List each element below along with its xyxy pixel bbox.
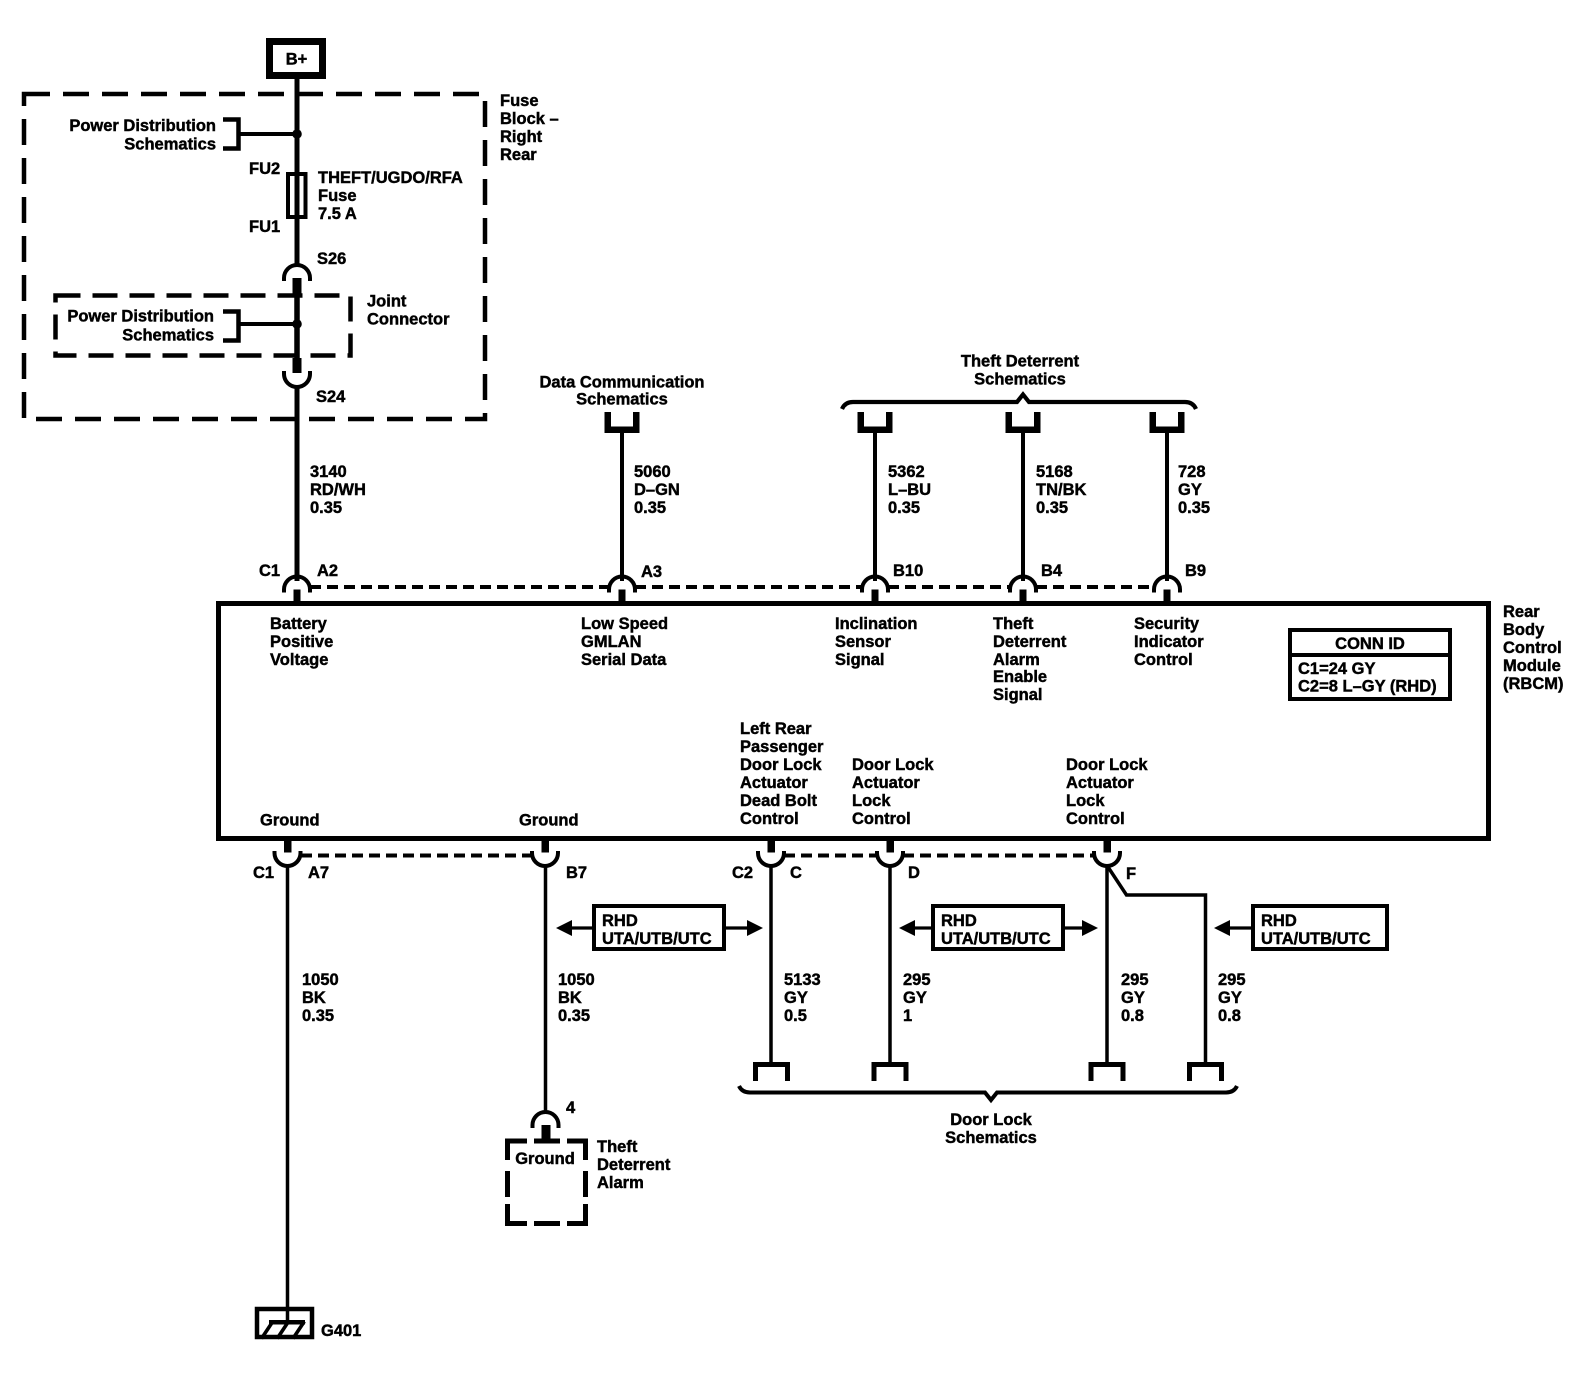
svg-text:Dead Bolt: Dead Bolt bbox=[740, 792, 818, 810]
pin A3 terminal stub bbox=[619, 590, 626, 603]
svg-text:B+: B+ bbox=[286, 51, 308, 69]
svg-text:G401: G401 bbox=[321, 1322, 361, 1340]
label: Joint Connector bbox=[367, 293, 450, 329]
label: 728 GY 0.35 bbox=[1178, 463, 1210, 517]
dashed box: Theft Deterrent Alarm ground bbox=[508, 1141, 586, 1224]
pin B10 terminal stub bbox=[872, 590, 879, 603]
wire 1050 BK: pin B7 down to theft deterrent alarm bbox=[544, 864, 548, 1113]
svg-text:F: F bbox=[1126, 865, 1136, 883]
label: 5168 TN/BK 0.35 bbox=[1036, 463, 1086, 517]
pin 4 terminal stub bbox=[542, 1125, 551, 1139]
label: THEFT/UGDO/RFA Fuse 7.5 A bbox=[318, 169, 463, 223]
svg-text:5168: 5168 bbox=[1036, 463, 1073, 481]
svg-text:Power Distribution: Power Distribution bbox=[67, 308, 214, 326]
pin B9 connector arc bbox=[1154, 577, 1180, 593]
pin B4 connector arc bbox=[1010, 577, 1036, 593]
label: Power Distribution Schematics (upper) bbox=[69, 117, 216, 154]
label: Data Communication Schematics bbox=[539, 374, 704, 409]
svg-text:S24: S24 bbox=[316, 388, 346, 406]
svg-text:Actuator: Actuator bbox=[1066, 774, 1134, 792]
svg-text:Control: Control bbox=[1066, 810, 1125, 828]
pin F connector arc bbox=[1094, 851, 1120, 866]
svg-text:Fuse: Fuse bbox=[500, 92, 539, 110]
label: Theft Deterrent Alarm bbox=[597, 1138, 671, 1192]
pin A3 connector arc bbox=[609, 577, 635, 593]
label: 3140 RD/WH 0.35 bbox=[310, 463, 366, 517]
svg-text:GY: GY bbox=[1121, 989, 1145, 1007]
svg-text:Data Communication: Data Communication bbox=[539, 374, 704, 392]
label: Theft Deterrent Schematics bbox=[961, 353, 1080, 389]
svg-text:Serial Data: Serial Data bbox=[581, 651, 667, 669]
svg-text:5060: 5060 bbox=[634, 463, 671, 481]
svg-text:295: 295 bbox=[903, 971, 931, 989]
svg-text:Battery: Battery bbox=[270, 615, 328, 633]
svg-text:Schematics: Schematics bbox=[576, 391, 668, 409]
svg-text:0.8: 0.8 bbox=[1218, 1007, 1241, 1025]
dashed connector line: RBCM top edge C1 bbox=[310, 585, 1154, 589]
svg-text:Theft: Theft bbox=[993, 615, 1034, 633]
svg-text:3140: 3140 bbox=[310, 463, 347, 481]
svg-text:1050: 1050 bbox=[558, 971, 595, 989]
svg-text:295: 295 bbox=[1218, 971, 1246, 989]
svg-text:Right: Right bbox=[500, 128, 543, 146]
wire: bracket to main feed (lower) bbox=[240, 322, 297, 326]
label: 5060 D-GN 0.35 bbox=[634, 463, 680, 517]
svg-text:Schematics: Schematics bbox=[945, 1129, 1037, 1147]
label: 1050 BK 0.35 (left) bbox=[302, 971, 339, 1025]
svg-text:FU1: FU1 bbox=[249, 218, 280, 236]
svg-text:1050: 1050 bbox=[302, 971, 339, 989]
wire 728 GY: to RBCM pin B9 bbox=[1165, 433, 1169, 581]
svg-text:B4: B4 bbox=[1041, 562, 1063, 580]
conn id table bbox=[1288, 630, 1452, 699]
off-page connector: theft deterrent (right) bbox=[1150, 412, 1185, 433]
wire: bracket to main feed (upper) bbox=[240, 132, 297, 136]
pin B7 connector arc bbox=[532, 851, 558, 866]
wire: through joint connector bbox=[294, 295, 300, 358]
off-page connector: door lock (branch) bbox=[1187, 1062, 1224, 1081]
pin A7 connector arc (C1) bbox=[275, 851, 301, 866]
svg-text:UTA/UTB/UTC: UTA/UTB/UTC bbox=[602, 930, 712, 948]
label: Theft Deterrent Alarm Enable Signal bbox=[993, 615, 1067, 704]
off-page connector: door lock (F) bbox=[1089, 1062, 1126, 1081]
off-page connector: theft deterrent (left) bbox=[858, 412, 893, 433]
svg-text:Indicator: Indicator bbox=[1134, 633, 1204, 651]
node: junction in joint connector bbox=[292, 319, 302, 329]
label: Power Distribution Schematics (lower) bbox=[67, 308, 214, 345]
svg-text:C1=24 GY: C1=24 GY bbox=[1298, 660, 1376, 678]
label: 5133 GY 0.5 bbox=[784, 971, 821, 1025]
svg-text:Schematics: Schematics bbox=[974, 371, 1066, 389]
svg-text:B9: B9 bbox=[1185, 562, 1206, 580]
ground G401 symbol bbox=[257, 1309, 312, 1339]
svg-text:Lock: Lock bbox=[852, 792, 891, 810]
svg-text:Theft: Theft bbox=[597, 1138, 638, 1156]
node: junction at B+ feed (upper) bbox=[292, 129, 302, 139]
pin A2 connector arc (C1) bbox=[284, 577, 310, 593]
wire: branch from pin F diagonal bbox=[1108, 867, 1206, 1062]
label: 5362 L-BU 0.35 bbox=[888, 463, 931, 517]
svg-text:GY: GY bbox=[784, 989, 808, 1007]
svg-text:GY: GY bbox=[1218, 989, 1242, 1007]
RHD UTA/UTB/UTC box (left) bbox=[594, 906, 724, 949]
arrow: RHD left box to C2 wire bbox=[726, 920, 763, 936]
svg-text:Ground: Ground bbox=[515, 1150, 575, 1168]
svg-text:Deterrent: Deterrent bbox=[993, 633, 1067, 651]
svg-text:Control: Control bbox=[852, 810, 911, 828]
pin C connector arc (C2) bbox=[758, 851, 784, 866]
wire 295 GY 1: pin D down to door lock schematics bbox=[888, 864, 892, 1062]
svg-text:5362: 5362 bbox=[888, 463, 925, 481]
svg-text:Control: Control bbox=[740, 810, 799, 828]
svg-text:Door Lock: Door Lock bbox=[1066, 756, 1148, 774]
svg-text:C2=8 L–GY (RHD): C2=8 L–GY (RHD) bbox=[1298, 678, 1437, 696]
svg-text:TN/BK: TN/BK bbox=[1036, 481, 1086, 499]
svg-text:Theft Deterrent: Theft Deterrent bbox=[961, 353, 1080, 371]
brace: door lock schematics group bbox=[739, 1086, 1237, 1100]
wire 1050 BK: pin A7 down to G401 bbox=[286, 864, 290, 1322]
svg-text:Control: Control bbox=[1134, 651, 1193, 669]
off-page connector: door lock (D) bbox=[872, 1062, 909, 1081]
pin B9 terminal stub bbox=[1164, 590, 1171, 603]
bracket: power distribution reference (lower) bbox=[223, 312, 239, 341]
label: Rear Body Control Module (RBCM) bbox=[1503, 603, 1563, 693]
svg-text:728: 728 bbox=[1178, 463, 1206, 481]
svg-text:Ground: Ground bbox=[519, 812, 579, 830]
svg-text:RHD: RHD bbox=[1261, 912, 1297, 930]
svg-text:0.8: 0.8 bbox=[1121, 1007, 1144, 1025]
svg-text:0.5: 0.5 bbox=[784, 1007, 807, 1025]
wire 5168 TN/BK: to RBCM pin B4 bbox=[1021, 433, 1025, 581]
svg-text:CONN ID: CONN ID bbox=[1335, 635, 1405, 653]
svg-text:Power Distribution: Power Distribution bbox=[69, 117, 216, 135]
label: Door Lock Actuator Lock Control (pin F) bbox=[1066, 756, 1148, 828]
svg-text:Signal: Signal bbox=[993, 686, 1043, 704]
svg-text:Alarm: Alarm bbox=[597, 1174, 644, 1192]
B+ battery feed box bbox=[270, 42, 323, 76]
svg-text:Alarm: Alarm bbox=[993, 651, 1040, 669]
svg-text:Signal: Signal bbox=[835, 651, 885, 669]
svg-text:Inclination: Inclination bbox=[835, 615, 918, 633]
svg-text:GY: GY bbox=[903, 989, 927, 1007]
off-page connector: theft deterrent (middle) bbox=[1006, 412, 1041, 433]
pin F terminal stub bbox=[1104, 839, 1112, 853]
splice S26 connector arc bbox=[284, 265, 310, 281]
svg-text:Rear: Rear bbox=[500, 146, 537, 164]
svg-text:Deterrent: Deterrent bbox=[597, 1156, 671, 1174]
svg-text:(RBCM): (RBCM) bbox=[1503, 675, 1563, 693]
svg-text:C1: C1 bbox=[259, 562, 280, 580]
svg-text:C2: C2 bbox=[732, 864, 753, 882]
svg-text:Low Speed: Low Speed bbox=[581, 615, 668, 633]
wire: B+ down to fuse FU2 bbox=[295, 79, 300, 266]
label: Door Lock Schematics bbox=[945, 1111, 1037, 1147]
arrow: RHD middle box to D wire bbox=[899, 920, 931, 936]
svg-text:0.35: 0.35 bbox=[634, 499, 666, 517]
wire 5133 GY: pin C down to door lock schematics bbox=[769, 864, 773, 1062]
wire 5060 D-GN: to RBCM pin A3 bbox=[620, 433, 624, 581]
label: Left Rear Passenger Door Lock Actuator Dead Bolt Control bbox=[740, 720, 824, 828]
svg-text:Body: Body bbox=[1503, 621, 1545, 639]
svg-text:295: 295 bbox=[1121, 971, 1149, 989]
wire: thick terminal bar below S26 bbox=[293, 278, 302, 295]
wire 3140 RD/WH: S24 down to RBCM pin A2 bbox=[295, 386, 300, 581]
svg-text:D–GN: D–GN bbox=[634, 481, 680, 499]
svg-text:RD/WH: RD/WH bbox=[310, 481, 366, 499]
svg-text:BK: BK bbox=[558, 989, 582, 1007]
label: Battery Positive Voltage bbox=[270, 615, 333, 669]
dashed box: Joint Connector bbox=[56, 296, 351, 356]
pin D terminal stub bbox=[887, 839, 895, 853]
dashed box: Fuse Block - Right Rear bbox=[24, 94, 485, 419]
svg-text:0.35: 0.35 bbox=[1036, 499, 1068, 517]
label: Security Indicator Control bbox=[1134, 615, 1204, 669]
svg-text:B10: B10 bbox=[893, 562, 923, 580]
svg-text:0.35: 0.35 bbox=[310, 499, 342, 517]
label: 295 GY 0.8 (F) bbox=[1121, 971, 1149, 1025]
svg-text:GMLAN: GMLAN bbox=[581, 633, 642, 651]
label: 295 GY 0.8 (branch) bbox=[1218, 971, 1246, 1025]
pin A7 terminal stub bbox=[284, 839, 292, 853]
svg-text:Sensor: Sensor bbox=[835, 633, 892, 651]
arrow: RHD middle box to F wire bbox=[1065, 920, 1098, 936]
svg-text:Schematics: Schematics bbox=[124, 136, 216, 154]
svg-text:Connector: Connector bbox=[367, 311, 450, 329]
label: 295 GY 1 bbox=[903, 971, 931, 1025]
RHD UTA/UTB/UTC box (middle) bbox=[933, 906, 1063, 949]
pin C terminal stub bbox=[768, 839, 776, 853]
svg-text:Ground: Ground bbox=[260, 812, 320, 830]
svg-text:UTA/UTB/UTC: UTA/UTB/UTC bbox=[1261, 930, 1371, 948]
svg-text:0.35: 0.35 bbox=[302, 1007, 334, 1025]
svg-text:FU2: FU2 bbox=[249, 160, 280, 178]
label: 1050 BK 0.35 (B7) bbox=[558, 971, 595, 1025]
svg-text:5133: 5133 bbox=[784, 971, 821, 989]
label: Inclination Sensor Signal bbox=[835, 615, 918, 669]
svg-text:7.5 A: 7.5 A bbox=[318, 205, 357, 223]
svg-text:0.35: 0.35 bbox=[558, 1007, 590, 1025]
svg-text:C1: C1 bbox=[253, 864, 274, 882]
bracket: power distribution reference (upper) bbox=[223, 120, 239, 149]
svg-text:Door Lock: Door Lock bbox=[852, 756, 934, 774]
svg-text:GY: GY bbox=[1178, 481, 1202, 499]
label: Low Speed GMLAN Serial Data bbox=[581, 615, 668, 669]
svg-text:D: D bbox=[908, 864, 920, 882]
svg-text:Voltage: Voltage bbox=[270, 651, 328, 669]
svg-text:S26: S26 bbox=[317, 250, 346, 268]
svg-text:L–BU: L–BU bbox=[888, 481, 931, 499]
svg-text:Actuator: Actuator bbox=[740, 774, 808, 792]
svg-text:Schematics: Schematics bbox=[122, 327, 214, 345]
svg-text:Positive: Positive bbox=[270, 633, 333, 651]
svg-text:0.35: 0.35 bbox=[888, 499, 920, 517]
svg-text:Door Lock: Door Lock bbox=[740, 756, 822, 774]
svg-text:BK: BK bbox=[302, 989, 326, 1007]
svg-text:Passenger: Passenger bbox=[740, 738, 824, 756]
pin B4 terminal stub bbox=[1020, 590, 1027, 603]
splice S24 connector arc bbox=[284, 371, 310, 387]
wire: thick terminal bar above S24 bbox=[293, 358, 302, 373]
svg-text:0.35: 0.35 bbox=[1178, 499, 1210, 517]
svg-text:Joint: Joint bbox=[367, 293, 407, 311]
svg-text:A3: A3 bbox=[641, 563, 662, 581]
svg-text:Security: Security bbox=[1134, 615, 1200, 633]
svg-text:RHD: RHD bbox=[602, 912, 638, 930]
svg-text:B7: B7 bbox=[566, 864, 587, 882]
label: Fuse Block - Right Rear bbox=[500, 92, 559, 164]
pin A2 terminal stub bbox=[294, 590, 301, 603]
svg-text:4: 4 bbox=[566, 1099, 576, 1117]
off-page connector: door lock (C) bbox=[753, 1062, 790, 1081]
pin B7 terminal stub bbox=[542, 839, 550, 853]
svg-text:UTA/UTB/UTC: UTA/UTB/UTC bbox=[941, 930, 1051, 948]
RHD UTA/UTB/UTC box (right) bbox=[1253, 906, 1387, 949]
RBCM module box bbox=[219, 604, 1489, 839]
wire 5362 L-BU: to RBCM pin B10 bbox=[873, 433, 877, 581]
svg-text:Module: Module bbox=[1503, 657, 1561, 675]
arrow: RHD right box to branch wire bbox=[1214, 920, 1251, 936]
svg-text:RHD: RHD bbox=[941, 912, 977, 930]
svg-text:Rear: Rear bbox=[1503, 603, 1540, 621]
svg-text:Fuse: Fuse bbox=[318, 187, 357, 205]
svg-text:THEFT/UGDO/RFA: THEFT/UGDO/RFA bbox=[318, 169, 463, 187]
svg-text:Block –: Block – bbox=[500, 110, 559, 128]
brace: theft deterrent schematics group bbox=[842, 395, 1196, 410]
svg-text:Left Rear: Left Rear bbox=[740, 720, 812, 738]
pin B10 connector arc bbox=[862, 577, 888, 593]
wire 295 GY 0.8: pin F down to door lock schematics bbox=[1105, 864, 1109, 1062]
off-page connector: data communication bbox=[605, 412, 640, 433]
fuse THEFT/UGDO/RFA 7.5 A bbox=[288, 174, 306, 217]
svg-text:1: 1 bbox=[903, 1007, 912, 1025]
pin 4 connector arc bbox=[533, 1112, 559, 1128]
label: Door Lock Actuator Lock Control (pin D) bbox=[852, 756, 934, 828]
arrow: RHD left box to B7 wire bbox=[556, 920, 592, 936]
pin D connector arc bbox=[877, 851, 903, 866]
svg-text:Door Lock: Door Lock bbox=[950, 1111, 1032, 1129]
svg-text:A2: A2 bbox=[317, 562, 338, 580]
svg-text:Enable: Enable bbox=[993, 668, 1047, 686]
svg-text:Lock: Lock bbox=[1066, 792, 1105, 810]
svg-text:Actuator: Actuator bbox=[852, 774, 920, 792]
svg-text:A7: A7 bbox=[308, 864, 329, 882]
svg-text:Control: Control bbox=[1503, 639, 1562, 657]
svg-text:C: C bbox=[790, 864, 802, 882]
dashed connector line: RBCM bottom edge bbox=[301, 854, 1094, 858]
